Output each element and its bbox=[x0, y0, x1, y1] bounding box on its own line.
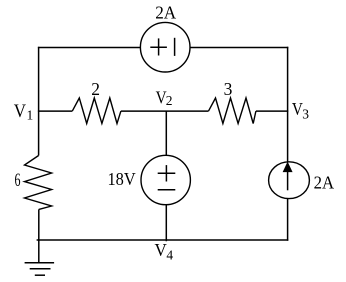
ground bbox=[25, 262, 54, 264]
svg-text:4: 4 bbox=[166, 248, 173, 263]
source 2A (top): circle body bbox=[140, 22, 190, 72]
wire: V2 stub down through 18V source to bottom rail bbox=[165, 111, 167, 241]
svg-text:6: 6 bbox=[15, 170, 21, 191]
source 2A (top): bar terminal bbox=[174, 38, 176, 56]
source 2A (top): plus sign bbox=[150, 46, 167, 48]
voltage source 18V: minus bar bbox=[158, 189, 176, 191]
wire: right rail (top to bottom, covered by source circle) bbox=[287, 47, 289, 241]
svg-text:3: 3 bbox=[224, 79, 233, 99]
wire: top rail from left rail to right rail bbox=[38, 47, 288, 49]
svg-text:V: V bbox=[14, 102, 27, 122]
voltage source 18V: plus sign bbox=[158, 172, 176, 174]
resistor 3 (between V2 and V3) bbox=[209, 98, 256, 124]
svg-text:2: 2 bbox=[166, 93, 173, 108]
voltage source 18V: circle body bbox=[141, 155, 190, 204]
wire: middle row resistor 2 to resistor 3 through node V2 bbox=[121, 110, 209, 112]
svg-text:2A: 2A bbox=[155, 3, 176, 23]
current source 2A (right): arrow head (up) bbox=[283, 162, 292, 172]
svg-text:V: V bbox=[155, 240, 168, 260]
resistor 2 (between V1 and V2) bbox=[72, 98, 121, 124]
wire: middle row resistor 3 to right rail (node V3) bbox=[256, 110, 288, 112]
current source 2A (right): circle body bbox=[269, 162, 310, 199]
svg-text:2A: 2A bbox=[314, 173, 335, 193]
svg-text:1: 1 bbox=[27, 107, 34, 122]
wire: middle row V1 to resistor 2 bbox=[38, 110, 72, 112]
svg-text:3: 3 bbox=[302, 106, 309, 121]
svg-text:18V: 18V bbox=[108, 169, 137, 189]
svg-text:2: 2 bbox=[91, 79, 100, 99]
wire: bottom rail bbox=[37, 239, 289, 241]
current source 2A (right): arrow shaft bbox=[287, 172, 289, 191]
wire: left rail lower segment (resistor 6 to bottom rail and ground stub) bbox=[38, 209, 40, 262]
resistor 6 (left branch, vertical) bbox=[25, 156, 52, 210]
wire: left rail upper segment (top rail to resistor 6) bbox=[38, 47, 40, 156]
